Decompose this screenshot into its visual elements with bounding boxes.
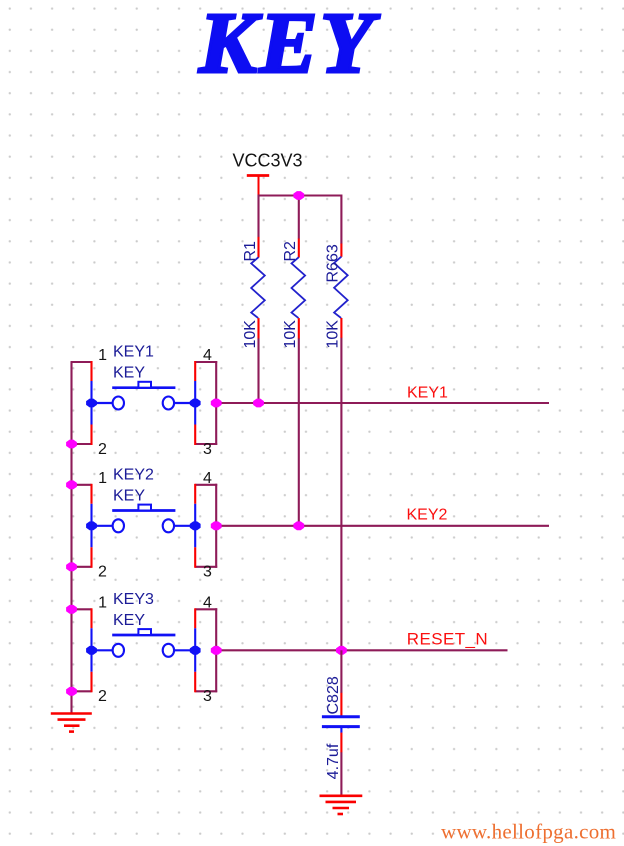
svg-text:KEY2: KEY2 xyxy=(113,466,154,483)
wire C828 to ground xyxy=(340,752,342,796)
ground at left rail xyxy=(51,714,92,732)
svg-text:KEY: KEY xyxy=(113,365,145,382)
junction node KEY1 at pin3/4 xyxy=(211,399,222,408)
svg-text:R1: R1 xyxy=(242,241,259,262)
pin 2 of KEY2 xyxy=(98,564,107,581)
value 4.7uf xyxy=(325,743,342,779)
junction node KEY1 at R1 xyxy=(253,399,264,408)
wire pin1-pin2 loop of KEY3 xyxy=(71,608,92,692)
resistor R2 xyxy=(292,239,306,339)
wire top rail VCC xyxy=(259,196,342,244)
net label KEY2 xyxy=(407,507,448,524)
svg-text:4.7uf: 4.7uf xyxy=(325,743,342,779)
watermark www.hellofpga.com xyxy=(441,819,616,843)
svg-text:KEY: KEY xyxy=(113,612,145,629)
comment KEY of KEY2 xyxy=(113,487,145,504)
svg-text:3: 3 xyxy=(203,688,212,705)
pin 1 of KEY3 xyxy=(98,595,107,612)
svg-text:2: 2 xyxy=(98,688,107,705)
wire R2 to KEY2 net xyxy=(298,338,300,525)
wire pin1-pin2 loop of KEY2 xyxy=(71,484,92,568)
wire R663 to RESET_N net xyxy=(340,338,342,651)
junction node KEY2 at pin3/4 xyxy=(211,521,222,530)
svg-text:KEY3: KEY3 xyxy=(113,591,154,608)
junction node rail at KEY3 pin1 xyxy=(66,605,77,614)
designator KEY3 xyxy=(113,591,154,608)
svg-text:2: 2 xyxy=(98,564,107,581)
svg-text:www.hellofpga.com: www.hellofpga.com xyxy=(441,819,616,843)
svg-text:10K: 10K xyxy=(282,320,299,349)
pin 3 of KEY3 xyxy=(203,688,212,705)
svg-text:R2: R2 xyxy=(282,241,299,262)
resistor R1 xyxy=(251,237,265,339)
ground below C828 xyxy=(320,796,363,814)
wire net KEY1 xyxy=(216,402,549,404)
junction node rail at KEY1 pin2 xyxy=(66,440,77,449)
svg-text:KEY1: KEY1 xyxy=(113,344,154,361)
pin 2 of KEY3 xyxy=(98,688,107,705)
designator R1 xyxy=(242,241,259,262)
junction node RESET_N at C828 xyxy=(336,646,347,655)
svg-text:VCC3V3: VCC3V3 xyxy=(233,151,303,171)
pin 4 of KEY1 xyxy=(203,347,212,364)
wire pin4-pin3 loop of KEY2 xyxy=(195,484,217,568)
pin 4 of KEY3 xyxy=(203,595,212,612)
svg-text:RESET_N: RESET_N xyxy=(407,630,488,649)
wire net KEY2 xyxy=(216,525,549,527)
pin 2 of KEY1 xyxy=(98,441,107,458)
wire pin1-pin2 loop of KEY1 xyxy=(71,361,92,445)
wire left ground rail xyxy=(70,362,72,714)
svg-text:KEY: KEY xyxy=(198,0,380,91)
junction node RESET_N at pin3/4 xyxy=(211,646,222,655)
designator R663 xyxy=(325,244,342,282)
svg-text:KEY: KEY xyxy=(113,487,145,504)
value 10K of R1 xyxy=(242,320,259,349)
power symbol VCC3V3 bar xyxy=(247,176,269,197)
pin 1 of KEY2 xyxy=(98,470,107,487)
svg-text:1: 1 xyxy=(98,470,107,487)
svg-text:KEY1: KEY1 xyxy=(407,384,448,401)
wire pin4-pin3 loop of KEY3 xyxy=(195,608,217,692)
wire pin4-pin3 loop of KEY1 xyxy=(195,361,217,445)
junction node rail at KEY3 pin2 xyxy=(66,687,77,696)
svg-text:2: 2 xyxy=(98,441,107,458)
designator KEY1 xyxy=(113,344,154,361)
svg-text:10K: 10K xyxy=(325,320,342,349)
svg-text:3: 3 xyxy=(203,564,212,581)
junction node rail at KEY2 pin2 xyxy=(66,562,77,571)
junction node at R2 top xyxy=(293,191,304,200)
push button KEY2 xyxy=(86,505,201,533)
comment KEY of KEY3 xyxy=(113,612,145,629)
resistor R663 xyxy=(334,244,348,339)
svg-text:10K: 10K xyxy=(242,320,259,349)
value 10K of R663 xyxy=(325,320,342,349)
capacitor C828 xyxy=(322,650,360,752)
svg-text:1: 1 xyxy=(98,347,107,364)
svg-text:C828: C828 xyxy=(325,676,342,714)
svg-text:3: 3 xyxy=(203,441,212,458)
pin 4 of KEY2 xyxy=(203,470,212,487)
comment KEY of KEY1 xyxy=(113,365,145,382)
svg-text:R663: R663 xyxy=(325,244,342,282)
svg-text:4: 4 xyxy=(203,595,212,612)
pin 3 of KEY1 xyxy=(203,441,212,458)
push button KEY3 xyxy=(86,629,201,657)
designator KEY2 xyxy=(113,466,154,483)
push button KEY1 xyxy=(86,382,201,410)
pin 3 of KEY2 xyxy=(203,564,212,581)
net label KEY1 xyxy=(407,384,448,401)
title KEY xyxy=(198,0,380,91)
svg-text:1: 1 xyxy=(98,595,107,612)
value 10K of R2 xyxy=(282,320,299,349)
designator R2 xyxy=(282,241,299,262)
junction node KEY2 at R2 xyxy=(293,521,304,530)
wire net RESET_N xyxy=(216,649,507,651)
wire R1 to KEY1 net xyxy=(257,338,259,403)
svg-text:4: 4 xyxy=(203,470,212,487)
net label RESET_N xyxy=(407,630,488,649)
power net label VCC3V3 xyxy=(233,151,303,171)
svg-text:KEY2: KEY2 xyxy=(407,507,448,524)
junction node rail at KEY2 pin1 xyxy=(66,480,77,489)
designator C828 xyxy=(325,676,342,714)
svg-text:4: 4 xyxy=(203,347,212,364)
pin 1 of KEY1 xyxy=(98,347,107,364)
